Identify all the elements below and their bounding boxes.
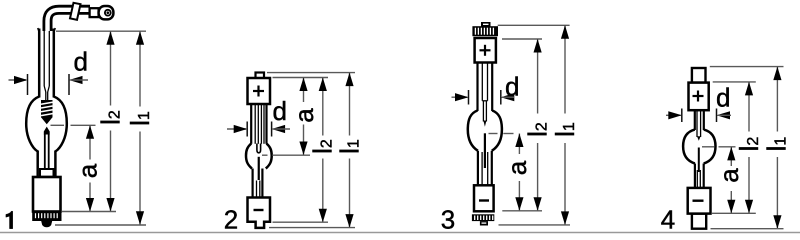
lamp3 bottom extension line (a,l2 ref)	[502, 210, 542, 212]
lamp1 bulb	[26, 97, 67, 152]
svg-text:a: a	[714, 168, 744, 183]
lamp1 number 1	[6, 211, 13, 229]
lamp4 dimension l1	[773, 67, 781, 229]
lamp1 dimension a	[86, 125, 94, 211]
lamp1 connector square	[90, 8, 99, 17]
lamp4 plus sign	[693, 91, 704, 102]
lamp1 neck tube	[38, 28, 55, 100]
lamp2 top cap	[248, 78, 271, 104]
lamp4 upper electrode tip	[697, 136, 701, 141]
lamp3 lower tube	[478, 151, 492, 186]
lamp2 upper tube	[251, 104, 266, 144]
svg-text:a: a	[289, 108, 319, 123]
lamp3 minus sign	[479, 199, 489, 201]
svg-text:4: 4	[661, 205, 675, 235]
svg-text:d: d	[74, 47, 88, 77]
lamp2 bottom baseline (l1 ref)	[269, 227, 355, 229]
lamp1 base nipple	[41, 221, 52, 227]
lamp2 top nipple	[256, 73, 265, 80]
lamp2 bottom extension line (l2 ref)	[273, 221, 329, 223]
lamp4 dimension a	[727, 147, 735, 213]
lamp4 bottom baseline (l1 ref)	[711, 228, 784, 230]
lamp1 base threads	[32, 212, 61, 222]
lamp4 bottom extension line (a,l2 ref)	[712, 212, 756, 214]
lamp3 plus sign	[480, 45, 491, 56]
lamp4 dimension l2	[745, 82, 753, 213]
svg-text:d: d	[273, 96, 287, 126]
lamp3 dimension l2	[534, 39, 542, 211]
lamp2 dimension l2	[319, 78, 327, 223]
lamp1 stem collar	[40, 169, 54, 177]
lamp1 dimension l2	[106, 31, 114, 211]
lamp4 minus sign	[693, 199, 704, 201]
lamp4 top cap	[689, 83, 709, 111]
lamp2 lower tube	[253, 169, 263, 198]
lamp4 lower electrode	[698, 148, 700, 173]
svg-text:a: a	[73, 163, 103, 178]
lamp4 bottom cap	[688, 188, 711, 214]
lamp1 lower electrode	[44, 127, 50, 170]
lamp4 arc centre reference line	[702, 146, 736, 148]
lamp2 arc tube bulge	[246, 144, 272, 169]
lamp2 lower electrode	[258, 157, 260, 180]
lamp1 dimension l1	[136, 31, 144, 225]
lamp2 dimension a	[299, 78, 307, 156]
lamp1 upper electrode (hatched cylinder)	[41, 100, 53, 124]
lamp1 top extension line	[56, 30, 146, 32]
lamp4 dimension d	[666, 109, 731, 123]
lamp3 top knurl ring	[472, 26, 498, 36]
lamp2 top extension lines	[267, 73, 355, 78]
lamp4 lower tube	[695, 164, 704, 188]
lamp1 bottom baseline (l1 ref)	[55, 224, 146, 226]
lamp1 dimension d	[9, 74, 89, 95]
lamp2 plus sign	[253, 86, 264, 97]
lamp2 bottom cap with nipple	[248, 198, 271, 228]
lamp3 bottom baseline (l1 ref)	[499, 224, 571, 226]
lamp3 upper tube	[478, 63, 493, 122]
lamp4 top nipple	[692, 68, 706, 83]
lamp2 arc centre reference line	[262, 154, 310, 156]
lamp3 arc centre reference line	[489, 133, 514, 135]
svg-text:a: a	[502, 160, 532, 175]
lamp1 lower neck	[38, 151, 56, 178]
lamp3 bottom nipple	[480, 221, 488, 225]
lamp4 bottom nipple	[692, 214, 706, 229]
lamp4 upper tube	[695, 110, 704, 137]
lamp3 upper electrode tip	[483, 121, 486, 127]
lamp4 top extension lines	[710, 67, 784, 82]
lamp3 top extension lines	[498, 25, 570, 39]
svg-text:d: d	[716, 83, 730, 113]
lamp1 base cylinder	[33, 177, 61, 212]
lamp2 dimension l1	[345, 73, 353, 228]
svg-text:d: d	[505, 72, 519, 102]
lamp1 connector eyelet	[99, 6, 114, 19]
lamp3 top nipple	[481, 22, 491, 27]
lamp3 dimension d	[452, 90, 515, 105]
lamp3 bulb	[468, 111, 502, 151]
lamp3 top cap	[475, 38, 496, 63]
lamp3 lower electrode	[484, 133, 486, 168]
lamp3 dimension l1	[561, 25, 569, 225]
lamp2 dimension d	[227, 122, 290, 137]
lamp1 cable ferrule	[70, 3, 81, 20]
lamp1 bottom extension line (a,l2 ref)	[62, 211, 116, 213]
page bottom rule	[0, 232, 800, 234]
lamp3 bottom knurl ring	[472, 214, 494, 221]
lamp3 dimension a	[515, 134, 523, 211]
lamp4 bulb	[683, 130, 715, 164]
lamp3 bottom cap	[474, 185, 494, 211]
lamp1 cable	[48, 10, 91, 31]
svg-text:3: 3	[441, 204, 455, 234]
lamp2 minus sign	[254, 209, 264, 211]
lamp1 arc centre reference line	[51, 124, 96, 126]
lamp2 upper electrode	[257, 144, 261, 153]
svg-text:2: 2	[224, 204, 238, 234]
